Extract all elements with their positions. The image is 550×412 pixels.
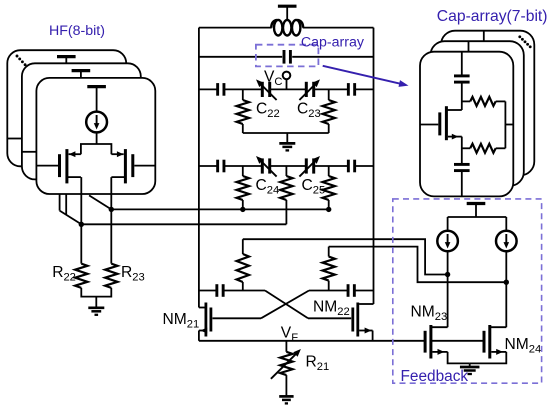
wire gate M_R [134, 165, 155, 167]
wire NM24 drain [490, 326, 507, 328]
transistor NM22 channel [356, 303, 359, 337]
terminal VC [283, 72, 291, 80]
wire NM23 source [432, 351, 447, 353]
wire cross diagonal 1 [265, 291, 308, 319]
transistor NM22 gate [351, 308, 354, 332]
transistor NM21 gate [209, 308, 212, 332]
transistor NM21 channel [204, 303, 207, 337]
wire feedback rail [448, 216, 507, 218]
resistor row2 right [328, 166, 330, 176]
wire left rail [198, 28, 200, 308]
wire cell drain [446, 109, 461, 111]
wire [461, 137, 463, 165]
wire gate bus left [199, 290, 217, 292]
inductor L [274, 20, 282, 36]
capacitor coupling right [347, 284, 350, 297]
resistor row2 left [242, 166, 244, 176]
wire row2 [199, 165, 218, 167]
wire NM21 gate [213, 317, 262, 319]
wire [505, 217, 507, 231]
wire drain arrow left [69, 153, 81, 155]
varactor C23 [305, 82, 308, 97]
wire diagonal to node A [89, 195, 111, 209]
wire [96, 132, 98, 144]
wire NM21 drain [199, 307, 205, 309]
resistor row1 right [328, 89, 330, 100]
wire [475, 204, 477, 218]
dashed box feedback [393, 199, 542, 383]
transistor M_L gate [58, 154, 61, 177]
wire NM21 source [199, 330, 205, 332]
wire drain distribution [81, 144, 112, 154]
ellipsis dots right stack [518, 35, 521, 38]
resistor cell lower [462, 147, 470, 149]
transistor M_L channel [65, 149, 68, 183]
junction bias1 [445, 272, 450, 277]
node A junction [109, 207, 114, 212]
ground row1 [279, 142, 295, 145]
svg-text:Cap-array: Cap-array [301, 35, 365, 51]
wire top stub middle card [468, 41, 470, 53]
wire row1 [199, 88, 218, 90]
resistor R22 [75, 264, 87, 288]
wire top rail right [303, 27, 374, 29]
capacitor row2 right [347, 160, 350, 173]
varactor C25 [305, 158, 308, 173]
HF DAC cell middle card [22, 63, 141, 179]
power supply feedback [467, 202, 486, 205]
power supply bar front card [87, 85, 106, 88]
wire output 1 to row2 [111, 208, 328, 210]
wire stub back card output [59, 194, 61, 211]
resistor cell upper [462, 100, 470, 102]
capacitor coupling left [215, 284, 218, 297]
wire cell gate [420, 124, 438, 126]
annotation arrow to cap-array card [323, 66, 405, 85]
transistor M_R gate [131, 154, 134, 177]
wire gate bus right [309, 290, 348, 292]
svg-text:Feedback: Feedback [401, 368, 469, 385]
wire output left vertical [80, 177, 82, 264]
resistor bias left [242, 239, 244, 254]
wire cell right tap [505, 124, 513, 126]
wire [461, 52, 463, 76]
junction bias2 [504, 280, 509, 285]
wire [461, 171, 463, 197]
wire VF rail [199, 340, 425, 342]
resistor R23 [105, 264, 117, 288]
capacitor row1 left [216, 83, 219, 96]
transistor NM24 channel [488, 325, 491, 359]
wire gate stub middle card [22, 151, 37, 153]
power supply top [278, 5, 297, 8]
wire [447, 251, 449, 327]
ground feedback [460, 366, 480, 369]
ground below R22 R23 [88, 306, 104, 309]
current source I3 [496, 231, 517, 252]
wire NM22 drain [359, 303, 373, 305]
power supply bar middle card [72, 69, 91, 72]
wire diagonal to node B [60, 211, 82, 225]
capacitor row2 left [216, 160, 219, 173]
cap cell middle card [431, 41, 524, 186]
transistor NM24 gate [483, 331, 486, 353]
wire [96, 87, 98, 112]
svg-text:HF(8-bit): HF(8-bit) [49, 23, 105, 39]
capacitor row1 right [347, 83, 350, 96]
current source I2 [437, 231, 458, 252]
wire right rail [373, 28, 375, 304]
transistor NM23 gate [424, 331, 427, 353]
wire output right vertical [110, 177, 112, 264]
capacitor cap-array [283, 50, 286, 64]
wire NM22 source [359, 330, 373, 332]
wire NM23 drain [431, 326, 448, 328]
power supply bar back card [57, 55, 76, 58]
wire [461, 82, 463, 110]
wire bias 1 to feedback [243, 239, 448, 274]
transistor cell gate [438, 112, 441, 135]
cap cell front card [420, 52, 513, 197]
HF DAC cell back card [7, 50, 126, 166]
HF DAC cell front card [36, 78, 155, 194]
varactor C22 [261, 82, 264, 97]
wire [286, 6, 288, 20]
wire bias 2 to feedback [329, 247, 507, 283]
wire gate stub back card [7, 138, 22, 140]
junction row2 left resistor [240, 207, 245, 212]
ellipsis dots left stack [16, 55, 19, 58]
varactor C24 [261, 158, 264, 173]
wire [65, 57, 67, 65]
cap cell back card [441, 31, 534, 176]
wire [505, 251, 507, 327]
wire cross diagonal 2 [261, 291, 309, 319]
transistor M_R channel [124, 149, 127, 183]
wire top stub back card [483, 31, 485, 43]
resistor row1 left [242, 89, 244, 100]
resistor bias right [328, 247, 330, 257]
node B junction [79, 222, 84, 227]
wire to NM22 gate [308, 317, 351, 319]
wire cell source [448, 136, 462, 138]
wire NM23 NM24 gate link [431, 340, 483, 342]
wire drain arrow right [111, 153, 123, 155]
wire source M_R [111, 176, 125, 178]
transistor NM23 channel [429, 325, 432, 359]
resistor row2 mid [285, 166, 287, 176]
wire [95, 297, 97, 308]
capacitor cell top [454, 74, 470, 77]
wire [80, 71, 82, 79]
resistor R21 variable [285, 341, 287, 352]
transistor cell channel [445, 106, 448, 140]
wire cell right join [504, 101, 506, 148]
wire stub middle card output [65, 194, 67, 215]
wire [469, 363, 471, 366]
ground below R21 [279, 395, 293, 398]
current source I1 [86, 112, 107, 133]
wire output 2 to row2 mid [81, 223, 286, 225]
wire gate M_L [36, 165, 58, 167]
svg-text:Cap-array(7-bit): Cap-array(7-bit) [437, 8, 548, 25]
wire cap-array row [199, 56, 282, 58]
wire resistor bottoms [81, 288, 111, 297]
wire top rail left [199, 27, 272, 29]
junction row2 right resistor [326, 207, 331, 212]
wire source M_L [67, 176, 81, 178]
capacitor cell bottom [454, 163, 470, 166]
wire NM24 source [491, 351, 506, 353]
wire [286, 133, 288, 143]
wire [447, 217, 449, 231]
dashed box cap-array [256, 45, 319, 67]
wire row1 resistor bottoms [243, 132, 329, 134]
